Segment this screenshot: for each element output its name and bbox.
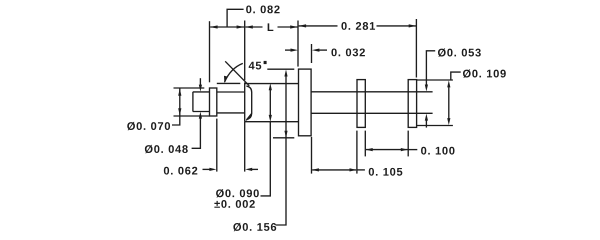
dia 0.109 extension top [417, 79, 453, 81]
extension line below chamfer corner [244, 122, 246, 172]
shaft top [311, 91, 432, 93]
extension line above flange F2 left [297, 21, 299, 67]
extension line flange F1 top left [174, 87, 205, 89]
label 0. 281 [341, 22, 375, 30]
corner leader arrowhead [245, 115, 251, 121]
dimension 0.100 extensions [364, 131, 366, 157]
dia 0.109 arrows [447, 80, 450, 87]
dimension 0.062 right arrow tail [252, 168, 259, 170]
dimension 0.082 bracket [227, 9, 244, 27]
dia 0.053 leader bracket [426, 51, 435, 85]
barrel B left face [244, 82, 246, 121]
extension line below flange F1 right [216, 119, 218, 172]
label 0. 082 [246, 5, 279, 13]
dia 0.070 arrows [178, 88, 181, 96]
label 0. 062 [164, 167, 197, 175]
45-degree arc leader [225, 63, 243, 82]
dimension 0.062 left arrow tail [203, 168, 211, 170]
label L [268, 23, 274, 31]
corner chamfer leader diagonal [246, 113, 251, 120]
0.082 arrows [210, 25, 218, 28]
label O0. 109 [463, 69, 506, 77]
dimension 0.105 line [312, 169, 356, 171]
dimension L line [245, 26, 262, 28]
extension line above chamfer corner [244, 21, 246, 81]
pin end face [192, 92, 194, 112]
L arrows [245, 25, 253, 28]
dia 0.048 arrows [199, 85, 202, 92]
pin bottom [193, 111, 210, 113]
dimension dia 0.070 line [179, 88, 181, 115]
bore bottom [217, 112, 245, 114]
extension 0.032 right [311, 44, 313, 63]
45-degree chamfer diagonal [225, 61, 249, 86]
label 0. 105 [369, 168, 403, 176]
45 arc arrowhead [224, 76, 227, 84]
collar C2 [408, 80, 416, 128]
dia 0.053 arrows [425, 85, 428, 92]
label O0. 048 [145, 145, 188, 153]
0.062 arrows [209, 168, 216, 171]
dia 0.156 arrows [284, 70, 287, 77]
dia 0.109 leader bracket [451, 72, 461, 80]
dimension 0.281 line [299, 25, 338, 27]
0.105 arrows [312, 168, 319, 171]
dia 0.090 dimension line [269, 90, 271, 116]
dimension 0.105 extensions [311, 137, 313, 174]
collar C1 [357, 80, 365, 128]
dia 0.048 bottom leader [192, 118, 201, 149]
label O0. 156 [233, 223, 276, 231]
flange F2 (mounting flange) [299, 69, 312, 136]
dia 0.053 bottom tail [425, 120, 427, 128]
dia 0.090 leader to text [261, 122, 271, 196]
extension line flange F1 bottom left [174, 115, 210, 117]
flange F1 [210, 88, 217, 116]
dimension 0.032 arrows [285, 49, 292, 51]
label O0. 090 [216, 189, 259, 197]
extension line above collar C2 right [415, 19, 417, 78]
dimension 0.082 line [210, 26, 244, 28]
bore top [217, 91, 245, 93]
dia 0.109 extension bottom [417, 125, 453, 127]
0.281 arrows [299, 24, 307, 27]
dia 0.109 dimension line [448, 86, 450, 119]
label 45 [249, 62, 262, 70]
dia 0.156 extension bottom [273, 137, 294, 139]
label 0. 100 [421, 147, 454, 155]
label O0. 070 [127, 122, 170, 130]
degree dot of 45 [264, 61, 267, 64]
dimension 0.100 line [366, 149, 408, 151]
dia 0.090 arrows [269, 83, 272, 90]
label O0. 053 [438, 48, 481, 56]
0.100 arrows [366, 148, 373, 151]
dia 0.156 dimension line and leader [276, 76, 287, 225]
label pm0. 002 [214, 200, 254, 208]
label 0. 032 [331, 48, 364, 56]
shaft bottom [311, 112, 432, 114]
0.032 arrows [291, 49, 299, 52]
pin top [193, 91, 210, 93]
bead arc [246, 86, 251, 119]
arrowheads [178, 24, 450, 171]
barrel B top [245, 83, 299, 85]
dia 0.156 extension top (flange top extended left) [267, 68, 294, 70]
barrel B bottom [245, 121, 299, 123]
dia 0.048 top arrow tail [199, 78, 201, 86]
barrel top reference line [217, 82, 241, 84]
dia 0.070 leader to text [172, 116, 180, 125]
extension line above flange F1 left [209, 21, 211, 82]
